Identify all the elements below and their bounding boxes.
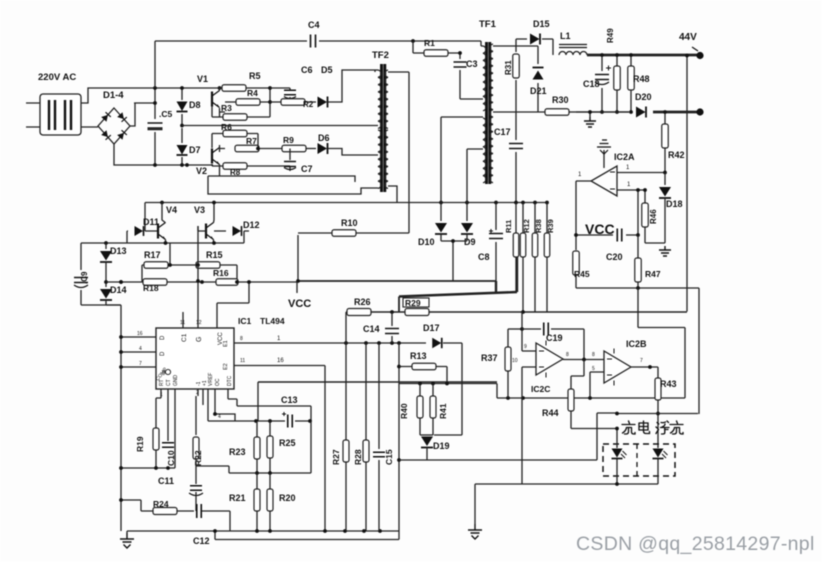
svg-text:12: 12 — [196, 320, 202, 326]
wire TF1 right coil top to D15 R31 — [493, 39, 516, 46]
svg-text:C19: C19 — [546, 333, 563, 343]
wire R44 bottom to LED1 — [571, 411, 617, 429]
svg-text:R6: R6 — [221, 122, 232, 132]
svg-text:R18: R18 — [143, 283, 159, 293]
wire mid rail y125 to TF2 — [182, 125, 375, 127]
terminal second — [696, 108, 703, 115]
text charge label chong-dian — [622, 421, 635, 434]
resistor R10 — [332, 230, 356, 237]
ground below rail — [589, 112, 591, 117]
wire TF2 right coil bottom — [388, 186, 397, 203]
svg-text:D21: D21 — [530, 86, 547, 96]
capacitor C10 — [162, 443, 174, 448]
resistor R11 — [515, 203, 517, 293]
capacitor C15 — [373, 452, 385, 457]
svg-text:R20: R20 — [279, 493, 296, 503]
wire top rail y88 — [94, 87, 215, 89]
wire V3 base from V4 emitter — [198, 226, 214, 243]
wire R28 column — [365, 343, 367, 531]
wire bridge bottom to bottom rail — [114, 144, 187, 165]
svg-text:R48: R48 — [633, 74, 650, 84]
svg-text:D5: D5 — [321, 65, 333, 75]
svg-text:L1: L1 — [560, 31, 571, 41]
wire IC2B minus input — [590, 372, 604, 398]
svg-text:R9: R9 — [283, 135, 294, 145]
wire lower parallel rail — [215, 531, 399, 540]
svg-text:D17: D17 — [423, 323, 440, 333]
svg-text:4: 4 — [218, 414, 221, 420]
wire R10 row — [298, 233, 409, 281]
capacitor C20 — [617, 229, 622, 242]
capacitor C13 — [288, 415, 293, 428]
svg-text:C18: C18 — [583, 79, 600, 89]
wire D10 column from TF1 — [440, 117, 442, 221]
node V1 collector — [218, 86, 222, 90]
wire TL494 pin11 long row y382 — [258, 381, 497, 383]
wire R45 R47 bottom to right — [576, 288, 699, 414]
text float label fu-chong — [656, 421, 669, 434]
capacitor C5 — [148, 123, 163, 128]
resistor R24 — [121, 500, 194, 511]
wire top rail y41 with C4 — [155, 41, 481, 88]
svg-text:R38: R38 — [534, 219, 543, 233]
wire V1 emitter to R4 row — [212, 106, 225, 117]
svg-text:11: 11 — [180, 320, 185, 326]
svg-text:R23: R23 — [229, 447, 246, 457]
svg-text:IC2C: IC2C — [531, 384, 550, 394]
wire y414 row from R43 to right column — [617, 413, 698, 415]
capacitor C13 loop — [237, 406, 311, 421]
svg-text:CT: CT — [166, 379, 172, 386]
capacitor C3 — [460, 53, 481, 99]
svg-text:R37: R37 — [481, 353, 498, 363]
svg-text:D20: D20 — [635, 92, 652, 102]
bridge rectifier D1-4 — [98, 108, 130, 144]
wire x399 column — [398, 343, 400, 531]
svg-text:9: 9 — [524, 344, 527, 350]
resistor R42 — [662, 124, 669, 148]
resistor R3 — [212, 116, 270, 118]
wire bridge right corner up to rail — [130, 103, 155, 126]
wire output rail 44V top — [587, 54, 700, 57]
svg-text:R40: R40 — [399, 403, 409, 419]
wire IC2A output to left column — [576, 181, 591, 250]
resistor R9 — [282, 145, 306, 152]
svg-text:D: D — [160, 351, 166, 356]
diode D9 — [461, 223, 473, 234]
ground above IC2A power pin — [603, 150, 605, 168]
svg-text:R44: R44 — [542, 408, 559, 418]
resistor R28 — [363, 440, 369, 462]
resistor R16 — [216, 279, 238, 286]
wire to C6 — [270, 88, 290, 102]
svg-text:DTC: DTC — [227, 375, 233, 386]
svg-text:16: 16 — [277, 358, 284, 364]
IC chip TL494 body — [156, 328, 234, 389]
wire V4 V3 base columns down — [170, 226, 198, 265]
wire C5 column — [154, 88, 156, 165]
svg-text:4: 4 — [139, 346, 142, 352]
svg-text:C14: C14 — [363, 324, 380, 334]
svg-text:R46: R46 — [649, 209, 658, 224]
capacitor C18 — [601, 55, 603, 112]
svg-text:R5: R5 — [249, 71, 261, 81]
wire column x258 down to C13 row — [257, 382, 259, 421]
svg-text:C13: C13 — [281, 395, 298, 405]
svg-text:5: 5 — [592, 366, 595, 372]
resistor R40 — [419, 384, 421, 436]
svg-text:11: 11 — [240, 358, 245, 364]
AC line filter — [40, 94, 81, 135]
svg-text:D: D — [160, 335, 166, 340]
svg-text:R24: R24 — [153, 499, 169, 509]
wire y383 row — [399, 384, 497, 399]
resistor R19 — [155, 398, 157, 468]
svg-text:R29: R29 — [405, 298, 421, 308]
wire second output rail — [576, 111, 629, 113]
ground LED rail — [474, 484, 476, 524]
capacitor C4 — [311, 35, 316, 48]
svg-text:D19: D19 — [433, 441, 450, 451]
diode D11 — [127, 230, 158, 232]
diode D19 — [420, 434, 433, 436]
svg-text:D14: D14 — [110, 285, 127, 295]
svg-text:R15: R15 — [206, 250, 223, 260]
diode D21 — [537, 46, 539, 112]
wire top rail of V4 V3 block — [144, 203, 146, 232]
svg-text:GND: GND — [173, 375, 179, 387]
resistor R48 — [630, 55, 632, 112]
svg-text:16: 16 — [137, 331, 143, 337]
transistor V2 — [212, 148, 220, 165]
capacitor C14 — [391, 312, 393, 343]
wire filter to bridge top rail — [81, 88, 94, 103]
resistor R43 — [657, 367, 659, 445]
diode D13 — [105, 243, 107, 249]
wire D8 D7 column — [181, 88, 183, 165]
svg-text:E1: E1 — [223, 340, 229, 347]
diode D14 — [105, 262, 107, 305]
wire C15 column — [378, 343, 380, 531]
svg-text:TL494: TL494 — [260, 316, 285, 326]
svg-text:R49: R49 — [606, 28, 615, 43]
svg-text:R1: R1 — [424, 38, 435, 48]
svg-text:7: 7 — [640, 358, 643, 364]
resistor R12 — [522, 203, 524, 312]
wire D19 bottom to x399 and LED feed — [399, 413, 617, 460]
svg-text:R39: R39 — [546, 219, 555, 233]
svg-text:C15: C15 — [384, 449, 394, 465]
wire y325 link to IC2B — [638, 288, 685, 398]
TL494 right pin 9 wire — [234, 342, 426, 344]
capacitor C19 — [522, 329, 584, 358]
wire D6 to TF2 lower — [328, 149, 371, 156]
capacitor C17 — [509, 144, 523, 149]
wire IC2B output — [631, 366, 658, 368]
wire IC2C plus input column — [522, 312, 536, 352]
svg-text:RT: RT — [159, 379, 165, 386]
resistor R41 — [432, 384, 434, 436]
op-amp IC2A pointing left — [591, 166, 617, 196]
wire V3 collector — [213, 203, 216, 223]
LED dashed box — [603, 444, 675, 476]
svg-text:D11: D11 — [143, 217, 159, 227]
svg-text:R16: R16 — [213, 268, 229, 278]
wire R17 R18 left link — [141, 265, 143, 282]
wire TF1 primary top — [481, 41, 483, 99]
svg-text:R47: R47 — [645, 269, 661, 279]
resistor R47 — [637, 235, 639, 288]
svg-text:R19: R19 — [135, 436, 145, 452]
svg-text:C10: C10 — [166, 450, 176, 466]
svg-text:VCC: VCC — [288, 298, 311, 310]
wire right bus of R5 R4 R3 — [269, 88, 271, 117]
resistor R22 — [193, 437, 199, 459]
svg-text:1: 1 — [160, 392, 163, 398]
svg-text:V2: V2 — [196, 166, 207, 176]
inductor L1 — [559, 45, 587, 48]
svg-text:IC2B: IC2B — [626, 339, 647, 349]
resistor R21 — [256, 473, 258, 531]
svg-text:D7: D7 — [189, 145, 201, 155]
svg-text:V3: V3 — [194, 205, 205, 215]
transistor V1 — [219, 88, 221, 91]
capacitor C9 — [74, 278, 88, 283]
wire IC2C output to IC2B — [563, 359, 604, 361]
capacitor C6 — [284, 90, 296, 95]
diode D15 — [516, 38, 553, 40]
wire R31 C17 column — [515, 46, 517, 202]
resistor R4 — [225, 101, 270, 103]
wire TF2 right coil top to column — [388, 71, 409, 73]
svg-text:8: 8 — [566, 352, 569, 358]
TL494 left pin wires — [121, 337, 156, 367]
wire R26 left down to pin row — [345, 312, 347, 343]
ground bottom left — [126, 531, 128, 533]
resistor R45 — [573, 251, 580, 275]
svg-text:R7: R7 — [246, 136, 257, 146]
svg-text:R4: R4 — [247, 88, 258, 98]
TL494 top pin stubs — [183, 265, 249, 328]
svg-text:D18: D18 — [666, 199, 683, 209]
svg-text:R43: R43 — [660, 379, 677, 389]
node rail dots — [600, 53, 604, 57]
wire R19 C10 bottom row — [121, 467, 175, 469]
capacitor C11 below R22 — [195, 459, 197, 511]
svg-text:D15: D15 — [533, 19, 550, 29]
svg-text:D13: D13 — [110, 246, 127, 256]
svg-text:R2: R2 — [303, 100, 314, 109]
svg-text:R42: R42 — [668, 150, 685, 160]
svg-text:CSDN @qq_25814297-npl: CSDN @qq_25814297-npl — [576, 533, 815, 555]
resistor R8 — [212, 164, 262, 166]
wire R37 top to C19 node — [508, 328, 522, 330]
wire left rail x121 down to ground — [106, 305, 121, 531]
capacitor C7 — [262, 149, 290, 172]
wire IC2A top input to R42 D18 — [617, 172, 665, 174]
resistor R15 — [196, 262, 220, 269]
wire 220VAC input stubs — [26, 103, 40, 127]
transistor V4 — [158, 223, 166, 240]
diode D5 — [318, 97, 328, 108]
resistor R39 — [546, 203, 548, 312]
svg-text:OC: OC — [215, 378, 221, 386]
wire TF1 left lower winding taps — [441, 117, 483, 149]
diode D18 — [664, 173, 666, 244]
svg-text:10: 10 — [512, 358, 518, 364]
wire D15 to L1 rail — [552, 39, 554, 55]
svg-text:R41: R41 — [438, 403, 448, 419]
wire TF2 right column down to R10 row — [408, 72, 410, 233]
resistor R20 — [269, 473, 271, 531]
svg-text:8: 8 — [240, 336, 243, 342]
wire filter bottom to bridge left — [81, 126, 98, 128]
LED2 float — [657, 445, 659, 484]
wire lower V2 block base rows — [212, 133, 258, 135]
wire R7 to R9 — [258, 134, 282, 149]
resistor R17 — [142, 264, 196, 266]
svg-text:E2: E2 — [223, 363, 229, 370]
svg-text:C20: C20 — [606, 252, 623, 262]
svg-text:D12: D12 — [243, 220, 260, 230]
resistor R46 — [645, 190, 665, 243]
wire heavy feedback line — [399, 257, 517, 297]
resistor R6 — [223, 130, 247, 137]
svg-text:7: 7 — [139, 361, 142, 367]
svg-text:D8: D8 — [189, 100, 201, 110]
svg-text:2: 2 — [196, 390, 199, 396]
capacitor C8 — [495, 203, 497, 282]
svg-text:VREF: VREF — [208, 373, 214, 386]
svg-text:8: 8 — [592, 352, 595, 358]
resistor R23 — [256, 421, 258, 473]
wire R27 column — [345, 343, 347, 531]
diode D12 — [214, 231, 249, 243]
svg-text:R22: R22 — [193, 450, 203, 466]
wire D14 junction row y282 — [106, 281, 142, 283]
svg-text:R12: R12 — [522, 219, 531, 233]
wire y281 feedback row — [298, 280, 496, 282]
svg-text:C11: C11 — [158, 476, 174, 486]
svg-text:C17: C17 — [494, 127, 511, 137]
svg-text:R11: R11 — [504, 220, 513, 233]
wire long rail y202 — [145, 202, 547, 204]
LED1 charge — [616, 429, 618, 485]
wire TF1 center tap to R30 — [493, 111, 545, 113]
resistor R49 — [616, 55, 618, 112]
svg-text:G: G — [196, 337, 203, 342]
capacitor C12 series — [197, 504, 202, 518]
svg-text:D1-4: D1-4 — [103, 90, 124, 101]
resistor R18 — [142, 281, 216, 283]
wire IC2A bottom input — [617, 190, 645, 235]
svg-text:TF2: TF2 — [372, 50, 389, 61]
svg-text:R27: R27 — [331, 449, 341, 465]
svg-text:R10: R10 — [341, 218, 358, 228]
wire second row y243 — [81, 242, 244, 244]
svg-text:.C5: .C5 — [159, 109, 173, 119]
TL494 right pin 11 wire — [234, 366, 325, 532]
diode D20 — [636, 107, 646, 118]
node R1 tap — [411, 39, 415, 43]
resistor R13 — [399, 367, 447, 384]
transistor V3 — [206, 223, 214, 240]
resistor R44 — [568, 389, 574, 411]
svg-text:IC2A: IC2A — [614, 152, 635, 162]
svg-text:R26: R26 — [354, 297, 371, 307]
resistor R37 — [507, 329, 509, 398]
resistor R25 — [269, 421, 271, 473]
svg-text:V1: V1 — [197, 74, 208, 84]
svg-text:C3: C3 — [466, 59, 478, 69]
wire D10 D9 cathodes join — [441, 234, 467, 281]
resistor R29 — [405, 309, 429, 316]
svg-text:220V AC: 220V AC — [38, 72, 76, 83]
TL494 bottom pin stubs — [156, 389, 175, 468]
svg-text:R21: R21 — [229, 493, 246, 503]
svg-text:D9: D9 — [464, 237, 476, 247]
svg-text:D6: D6 — [318, 133, 330, 143]
ground below D18 — [659, 246, 671, 256]
resistor R38 — [534, 203, 536, 312]
svg-text:R25: R25 — [279, 438, 296, 448]
svg-text:D10: D10 — [418, 237, 435, 247]
wire LED bottom rail — [475, 483, 658, 485]
wire C9 column — [81, 243, 121, 305]
diode D10 — [435, 223, 447, 234]
wire TF2 upper-left connection — [374, 70, 376, 72]
svg-text:C12: C12 — [193, 536, 210, 546]
wire bottom rail from bridge — [187, 164, 213, 166]
resistor R27 — [343, 440, 349, 462]
svg-text:V4: V4 — [166, 205, 177, 215]
svg-text:C7: C7 — [301, 164, 313, 174]
wire D9 column from TF1 — [466, 149, 468, 221]
diode D8 — [177, 102, 188, 112]
vertical wire from 44V terminal down right side — [686, 56, 688, 312]
wire D17 to D19 loop right side — [434, 343, 462, 435]
op-amp IC2C — [536, 343, 563, 375]
resistor R1 — [413, 41, 460, 53]
svg-text:C8: C8 — [478, 252, 490, 262]
wire R23 R25 bottom row — [196, 421, 311, 473]
wire R44 from output — [571, 360, 584, 390]
wire IC2C minus input — [522, 367, 536, 484]
wire IC2C rail y398 — [497, 397, 685, 399]
svg-text:R31: R31 — [504, 60, 513, 75]
diode D6 — [318, 143, 328, 154]
resistor R7 — [220, 145, 259, 152]
svg-text:IC1: IC1 — [238, 316, 252, 326]
svg-text:R28: R28 — [353, 449, 363, 465]
resistor R26 — [347, 309, 371, 316]
svg-text:R13: R13 — [410, 351, 427, 361]
op-amp IC2B — [604, 351, 631, 383]
svg-text:44V: 44V — [679, 32, 697, 43]
resistor R31 — [513, 54, 520, 78]
wire VCC row to left — [237, 281, 298, 283]
svg-text:R3: R3 — [221, 103, 232, 113]
VCC stub and label — [296, 282, 298, 293]
resistor R30 — [545, 109, 569, 116]
svg-text:R17: R17 — [144, 250, 161, 260]
wire V4 collector emitter — [162, 203, 166, 244]
svg-text:.C9: .C9 — [80, 271, 89, 284]
svg-text:C4: C4 — [308, 20, 320, 30]
terminal 44V — [696, 52, 703, 59]
resistor R5 — [215, 87, 270, 89]
wire bottom rail — [127, 530, 399, 532]
